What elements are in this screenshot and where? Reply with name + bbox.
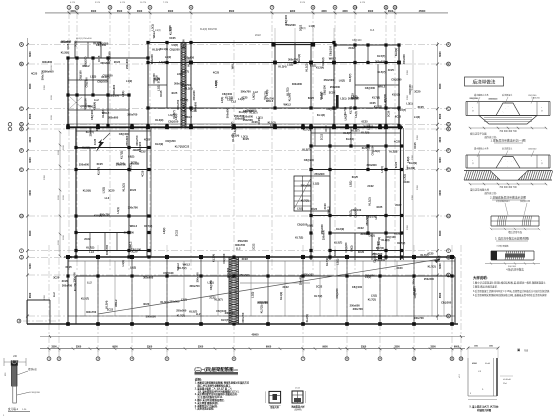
svg-text:4C25: 4C25	[31, 71, 38, 75]
svg-text:6600: 6600	[439, 190, 442, 196]
svg-text:L6(2): L6(2)	[128, 154, 134, 158]
svg-text:KL7(2): KL7(2)	[348, 106, 352, 114]
svg-text:250x600: 250x600	[125, 135, 129, 146]
svg-text:1.梁板后浇带做法示意(一)图: 1.梁板后浇带做法示意(一)图	[491, 139, 526, 143]
svg-text:C8@200: C8@200	[102, 73, 113, 77]
svg-text:6600: 6600	[439, 230, 442, 236]
svg-text:300x700: 300x700	[105, 244, 109, 255]
svg-text:3300: 3300	[394, 346, 400, 349]
svg-text:L6(2): L6(2)	[351, 94, 357, 98]
svg-text:C8@100: C8@100	[108, 51, 112, 62]
svg-text:250x600: 250x600	[88, 126, 92, 137]
svg-text:300x600: 300x600	[146, 314, 157, 318]
svg-text:6600: 6600	[29, 157, 32, 163]
svg-text:6C25: 6C25	[361, 120, 368, 124]
svg-text:KL7(2): KL7(2)	[428, 265, 436, 269]
svg-text:250x500: 250x500	[424, 277, 435, 281]
svg-text:L3(1): L3(1)	[297, 207, 303, 211]
svg-text:F: F	[448, 149, 450, 153]
svg-text:45600: 45600	[419, 10, 426, 13]
svg-text:KL3(4): KL3(4)	[212, 254, 216, 262]
svg-text:3C20: 3C20	[323, 203, 327, 210]
svg-text:250x500: 250x500	[324, 78, 335, 82]
svg-text:L3(1): L3(1)	[181, 298, 187, 302]
svg-text:L3(1): L3(1)	[349, 181, 353, 187]
svg-text:KL8(1) 250x500: KL8(1) 250x500	[76, 38, 92, 40]
svg-text:10: 10	[412, 357, 416, 361]
svg-text:C8@100: C8@100	[328, 45, 332, 56]
svg-text:250x500: 250x500	[124, 231, 135, 235]
svg-text:6600: 6600	[439, 263, 442, 269]
svg-text:KL7(2): KL7(2)	[186, 58, 190, 66]
svg-text:KL7(2): KL7(2)	[368, 297, 376, 301]
svg-text:3300: 3300	[70, 10, 76, 13]
svg-text:内锚固大样图: 内锚固大样图	[477, 408, 492, 412]
svg-text:300x600: 300x600	[225, 108, 229, 119]
svg-text:D: D	[447, 122, 449, 126]
svg-text:KL2(9): KL2(9)	[389, 150, 397, 154]
svg-text:4.170: 4.170	[360, 2, 366, 4]
svg-text:KL2(9): KL2(9)	[336, 227, 344, 231]
svg-text:6600: 6600	[29, 113, 32, 119]
svg-text:C8@100: C8@100	[96, 43, 107, 47]
svg-text:3300: 3300	[361, 346, 367, 349]
svg-text:2C22: 2C22	[348, 46, 355, 50]
svg-text:2C22: 2C22	[174, 229, 178, 236]
svg-text:6600: 6600	[266, 346, 272, 349]
svg-text:6600: 6600	[439, 51, 442, 57]
svg-text:L3(1): L3(1)	[265, 89, 269, 95]
svg-text:KL5(7): KL5(7)	[81, 296, 89, 300]
svg-text:300x700: 300x700	[288, 57, 299, 61]
svg-text:6C25: 6C25	[66, 265, 73, 269]
svg-text:4.170: 4.170	[70, 2, 76, 4]
svg-text:L6(2): L6(2)	[177, 72, 183, 76]
svg-text:≥0.4LaE: ≥0.4LaE	[503, 378, 511, 381]
svg-text:4C25: 4C25	[140, 170, 144, 177]
svg-text:L6(2): L6(2)	[365, 275, 371, 279]
svg-text:KL5(7): KL5(7)	[398, 108, 406, 112]
svg-text:KL7(2): KL7(2)	[144, 224, 152, 228]
svg-text:L3(1): L3(1)	[121, 91, 125, 97]
svg-text:KL7(2): KL7(2)	[374, 105, 382, 109]
svg-text:C8@200: C8@200	[169, 48, 180, 52]
svg-text:6C25: 6C25	[413, 142, 417, 149]
svg-text:6600: 6600	[29, 51, 32, 57]
svg-text:D: D	[20, 122, 22, 126]
svg-text:WKL2: WKL2	[329, 57, 337, 61]
svg-text:9900: 9900	[322, 346, 328, 349]
svg-text:G: G	[20, 168, 22, 172]
svg-text:KL1(2): KL1(2)	[321, 57, 325, 65]
svg-text:L6(2): L6(2)	[344, 114, 348, 120]
svg-text:4C25: 4C25	[144, 137, 151, 141]
svg-text:L3(1): L3(1)	[150, 24, 154, 30]
svg-text:300x700: 300x700	[127, 113, 138, 117]
svg-text:KL5(7): KL5(7)	[182, 104, 186, 112]
svg-text:300x600: 300x600	[225, 311, 236, 315]
svg-text:KL1(2): KL1(2)	[304, 63, 308, 71]
svg-text:2C22: 2C22	[84, 237, 91, 241]
svg-text:WKL2: WKL2	[378, 84, 386, 88]
svg-text:2C22: 2C22	[320, 92, 324, 99]
svg-text:C8@200: C8@200	[138, 141, 142, 152]
svg-text:KL2(9): KL2(9)	[61, 51, 69, 55]
svg-text:KL5(7): KL5(7)	[96, 167, 100, 175]
svg-text:6600: 6600	[439, 113, 442, 119]
svg-text:KL1(2): KL1(2)	[317, 113, 325, 117]
svg-text:KL2(9): KL2(9)	[155, 118, 163, 122]
svg-text:6600: 6600	[29, 190, 32, 196]
svg-text:12: 12	[393, 5, 397, 9]
svg-text:LL2: LL2	[374, 214, 378, 219]
svg-text:KL7(2): KL7(2)	[177, 314, 185, 318]
svg-text:300x600: 300x600	[375, 59, 386, 63]
svg-text:2C22: 2C22	[319, 133, 323, 140]
svg-text:6C25: 6C25	[333, 249, 337, 256]
svg-text:KL2(9) 300x700: KL2(9) 300x700	[200, 28, 218, 31]
svg-text:C8@100: C8@100	[352, 285, 363, 289]
svg-text:6600: 6600	[439, 157, 442, 163]
svg-text:6600: 6600	[439, 83, 442, 89]
svg-text:WKL2: WKL2	[185, 115, 193, 119]
svg-text:4.板后浇带做法: 4.板后浇带做法	[506, 268, 524, 272]
svg-text:KL2(9): KL2(9)	[412, 286, 416, 294]
svg-text:2C22: 2C22	[282, 285, 289, 289]
svg-text:250x500: 250x500	[330, 85, 341, 89]
svg-text:L1(2): L1(2)	[238, 97, 244, 101]
svg-text:梁后浇带加腋大样: 梁后浇带加腋大样	[470, 188, 490, 192]
svg-text:6C25: 6C25	[352, 175, 359, 179]
svg-text:3300: 3300	[198, 346, 204, 349]
svg-text:2C22: 2C22	[311, 207, 318, 211]
svg-text:KL2(9): KL2(9)	[394, 231, 402, 235]
svg-text:L1(2): L1(2)	[126, 79, 132, 83]
svg-text:L3(1): L3(1)	[402, 174, 406, 180]
svg-text:120 120: 120 120	[11, 361, 19, 363]
svg-text:6C25: 6C25	[97, 162, 104, 166]
svg-text:300x600: 300x600	[192, 90, 196, 101]
svg-text:11: 11	[385, 5, 388, 9]
svg-text:KL2(9): KL2(9)	[82, 146, 90, 150]
svg-text:3300: 3300	[412, 84, 414, 90]
svg-text:C8@200: C8@200	[119, 132, 130, 136]
svg-text:3300: 3300	[91, 10, 97, 13]
svg-text:KL3(4): KL3(4)	[278, 65, 286, 69]
svg-text:C8@100: C8@100	[163, 271, 174, 275]
svg-text:3C20: 3C20	[108, 188, 115, 192]
svg-text:250x500: 250x500	[286, 23, 297, 27]
svg-text:250x600: 250x600	[301, 183, 312, 187]
svg-text:2C22: 2C22	[107, 307, 114, 311]
svg-text:G: G	[447, 168, 449, 172]
svg-text:L6(2): L6(2)	[174, 113, 178, 119]
svg-text:L6(2): L6(2)	[349, 245, 353, 251]
svg-text:3300: 3300	[407, 224, 409, 230]
svg-text:L3(1): L3(1)	[367, 124, 371, 130]
svg-text:250x500: 250x500	[238, 239, 249, 243]
svg-text:300x600: 300x600	[42, 60, 53, 64]
svg-text:KL5(7): KL5(7)	[215, 297, 223, 301]
svg-text:KL3(4): KL3(4)	[93, 102, 97, 110]
svg-text:L1(2): L1(2)	[349, 210, 353, 216]
svg-text:L1(2): L1(2)	[309, 24, 315, 28]
svg-text:6C25: 6C25	[169, 36, 176, 40]
svg-text:250x500: 250x500	[372, 252, 383, 256]
svg-text:KL7(2): KL7(2)	[178, 266, 186, 270]
svg-text:L6(2): L6(2)	[130, 265, 136, 269]
svg-text:C8@200: C8@200	[528, 149, 537, 151]
svg-text:3C20: 3C20	[403, 180, 410, 184]
svg-text:700 300 300 700: 700 300 300 700	[499, 131, 517, 133]
svg-text:6C25: 6C25	[308, 96, 315, 100]
svg-text:2C22: 2C22	[252, 243, 256, 250]
svg-text:KL5(7): KL5(7)	[392, 93, 400, 97]
svg-text:250x600: 250x600	[320, 224, 324, 235]
svg-text:≥LaE: ≥LaE	[485, 362, 491, 365]
svg-text:.: .	[501, 159, 502, 163]
svg-text:C8@200: C8@200	[165, 139, 176, 143]
svg-text:250x500: 250x500	[176, 309, 187, 313]
svg-text:C8@200: C8@200	[90, 109, 94, 120]
svg-text:LL2: LL2	[196, 312, 201, 316]
svg-text:6600: 6600	[454, 346, 460, 349]
svg-text:3300: 3300	[412, 194, 414, 200]
svg-text:2C22: 2C22	[242, 257, 249, 261]
svg-text:L3(1): L3(1)	[241, 134, 247, 138]
svg-text:WKL2: WKL2	[130, 224, 138, 228]
svg-text:4C25: 4C25	[394, 139, 401, 143]
svg-text:KL7(2): KL7(2)	[101, 109, 105, 117]
svg-text:300x600: 300x600	[292, 82, 303, 86]
svg-text:(二)~(四)层梁配筋图: (二)~(四)层梁配筋图	[194, 366, 234, 373]
svg-text:6600: 6600	[29, 292, 32, 298]
svg-text:LL2: LL2	[105, 196, 110, 200]
svg-text:.: .	[513, 157, 514, 161]
svg-text:KL2(9): KL2(9)	[155, 142, 163, 146]
svg-text:WKL2: WKL2	[114, 299, 118, 307]
svg-text:KL5(7): KL5(7)	[334, 241, 342, 245]
svg-text:C8@200: C8@200	[354, 207, 358, 218]
svg-text:300x600: 300x600	[112, 84, 116, 95]
svg-text:C8@200: C8@200	[370, 145, 374, 156]
svg-text:2C22: 2C22	[255, 34, 261, 37]
svg-text:≥500: ≥500	[472, 362, 478, 365]
svg-text:3300: 3300	[407, 69, 409, 75]
svg-text:L1(2): L1(2)	[287, 62, 293, 66]
svg-text:6C25: 6C25	[394, 161, 398, 168]
svg-text:300x600: 300x600	[61, 40, 72, 44]
svg-text:L3(1): L3(1)	[371, 293, 377, 297]
svg-text:LL2: LL2	[87, 280, 92, 284]
svg-text:3300: 3300	[342, 10, 348, 13]
svg-text:250x500: 250x500	[365, 215, 369, 226]
svg-text:H: H	[447, 214, 449, 218]
svg-text:C8@200: C8@200	[335, 288, 339, 299]
svg-text:3C20: 3C20	[62, 279, 69, 283]
svg-text:4C25: 4C25	[369, 101, 376, 105]
svg-text:10: 10	[353, 5, 357, 9]
svg-text:L1(2): L1(2)	[90, 74, 96, 78]
svg-text:6600: 6600	[29, 136, 32, 142]
svg-text:3300: 3300	[417, 184, 419, 190]
svg-text:KL5(7): KL5(7)	[230, 122, 234, 130]
svg-text:KL7(2): KL7(2)	[376, 246, 384, 250]
svg-text:45600: 45600	[252, 333, 260, 336]
svg-text:L6(2): L6(2)	[307, 224, 313, 228]
svg-text:KL5(7): KL5(7)	[94, 213, 102, 217]
svg-text:4C25: 4C25	[66, 43, 70, 50]
svg-text:3300: 3300	[51, 346, 57, 349]
svg-text:4C25: 4C25	[388, 68, 395, 72]
svg-text:300x700: 300x700	[412, 274, 416, 285]
svg-text:KL3(4): KL3(4)	[152, 47, 160, 51]
svg-text:300x600: 300x600	[226, 267, 230, 278]
svg-text:KL2(9): KL2(9)	[73, 283, 77, 291]
svg-text:WKL2: WKL2	[183, 262, 191, 266]
svg-text:3300: 3300	[321, 10, 327, 13]
svg-text:11: 11	[451, 357, 454, 361]
svg-text:E: E	[21, 127, 23, 131]
svg-text:250x500: 250x500	[235, 117, 246, 121]
svg-text:C8@200: C8@200	[304, 158, 315, 162]
svg-text:4C25: 4C25	[95, 125, 99, 132]
svg-text:L5(2): L5(2)	[300, 27, 306, 30]
svg-text:300x700: 300x700	[62, 283, 73, 287]
svg-text:女儿墙-1: 女儿墙-1	[8, 407, 19, 411]
svg-text:KL1(2): KL1(2)	[160, 47, 168, 51]
svg-text:KL7(2): KL7(2)	[314, 294, 322, 298]
svg-text:KL5(7): KL5(7)	[362, 146, 370, 150]
svg-text:6C25: 6C25	[190, 109, 197, 113]
svg-text:L6(2): L6(2)	[380, 166, 384, 172]
svg-text:300x700: 300x700	[241, 312, 245, 323]
svg-text:4C25: 4C25	[213, 71, 220, 75]
svg-text:WKL2: WKL2	[230, 61, 234, 69]
svg-text:KL7(2): KL7(2)	[295, 236, 303, 240]
svg-text:L3(1): L3(1)	[227, 97, 233, 101]
svg-text:KL7(2): KL7(2)	[86, 245, 94, 249]
svg-text:C8@200: C8@200	[531, 97, 540, 99]
svg-text:300x700: 300x700	[264, 96, 275, 100]
svg-text:250x600: 250x600	[79, 163, 90, 167]
svg-text:C8@100: C8@100	[97, 79, 108, 83]
svg-text:C8@200: C8@200	[209, 279, 213, 290]
svg-text:L1(2): L1(2)	[270, 123, 276, 127]
svg-text:3.570: 3.570	[95, 2, 101, 4]
svg-text:L6(2): L6(2)	[162, 227, 166, 233]
svg-text:▣: ▣	[517, 348, 520, 352]
svg-text:6600: 6600	[388, 10, 394, 13]
svg-text:300x700: 300x700	[176, 99, 180, 110]
svg-text:6600: 6600	[439, 292, 442, 298]
svg-text:KL2(9): KL2(9)	[361, 131, 369, 135]
svg-text:KL3(4): KL3(4)	[161, 300, 169, 304]
svg-text:C: C	[20, 107, 22, 111]
svg-text:LL2: LL2	[94, 98, 99, 102]
svg-text:C8@200: C8@200	[257, 301, 268, 305]
svg-text:L1(2): L1(2)	[172, 43, 178, 47]
svg-text:300x700: 300x700	[128, 205, 139, 209]
svg-text:F: F	[21, 149, 23, 153]
svg-text:300x600: 300x600	[402, 54, 406, 65]
svg-text:2.基础底板后浇带做法示意图: 2.基础底板后浇带做法示意图	[490, 196, 526, 200]
svg-text:L3(1): L3(1)	[406, 102, 412, 106]
svg-text:KL2(9): KL2(9)	[394, 48, 398, 56]
svg-text:C8@200: C8@200	[470, 98, 479, 100]
svg-text:6C25: 6C25	[257, 118, 261, 125]
svg-text:A: A	[20, 43, 22, 47]
svg-text:KL3(4): KL3(4)	[346, 137, 354, 141]
svg-text:KL7(2): KL7(2)	[325, 258, 329, 266]
svg-text:C8@200: C8@200	[365, 86, 376, 90]
svg-text:250x600: 250x600	[314, 172, 325, 176]
svg-text:KL3(4): KL3(4)	[116, 161, 124, 165]
svg-text:大样说明:: 大样说明:	[473, 275, 488, 280]
svg-text:L3(1): L3(1)	[340, 96, 346, 100]
svg-text:KL7(2): KL7(2)	[231, 133, 235, 141]
svg-text:KL5(7): KL5(7)	[302, 148, 310, 152]
svg-text:KL7(2): KL7(2)	[175, 145, 183, 149]
svg-text:1:100: 1:100	[231, 368, 238, 372]
svg-text:C8@200: C8@200	[326, 107, 337, 111]
svg-text:KL5(7): KL5(7)	[221, 318, 229, 322]
svg-text:3C20: 3C20	[143, 302, 150, 306]
svg-text:KL2(9): KL2(9)	[409, 161, 417, 165]
svg-text:4C25: 4C25	[97, 55, 101, 62]
svg-text:3300: 3300	[417, 134, 419, 140]
svg-text:KL7(2): KL7(2)	[286, 87, 290, 95]
svg-text:KL6: KL6	[370, 29, 375, 32]
svg-text:3300: 3300	[44, 84, 46, 90]
svg-text:LL2: LL2	[89, 250, 94, 254]
svg-text:6C25: 6C25	[418, 105, 425, 109]
svg-text:L1(2): L1(2)	[313, 181, 319, 185]
svg-text:4C25: 4C25	[171, 91, 178, 95]
svg-text:C8@100: C8@100	[352, 39, 362, 42]
svg-text:KL1(2): KL1(2)	[279, 292, 283, 300]
svg-text:KL2(9): KL2(9)	[381, 238, 389, 242]
svg-text:3C20: 3C20	[168, 25, 172, 32]
svg-text:L1(2): L1(2)	[157, 85, 161, 91]
svg-text:9900: 9900	[290, 10, 296, 13]
svg-text:.: .	[507, 164, 508, 168]
svg-text:6600: 6600	[29, 230, 32, 236]
svg-text:KL5(7): KL5(7)	[348, 74, 352, 82]
svg-text:L6(2): L6(2)	[165, 55, 171, 59]
svg-text:C8@200: C8@200	[344, 242, 348, 253]
svg-text:.: .	[507, 159, 508, 163]
svg-text:4C25: 4C25	[93, 138, 97, 145]
svg-text:3300: 3300	[430, 346, 436, 349]
svg-text:4C25: 4C25	[376, 205, 383, 209]
svg-text:3C20: 3C20	[414, 89, 421, 93]
svg-text:7.170: 7.170	[163, 2, 169, 4]
svg-text:3300: 3300	[76, 346, 82, 349]
svg-text:KL7(2): KL7(2)	[303, 127, 311, 131]
svg-text:250x600: 250x600	[125, 58, 129, 69]
svg-text:C8@200: C8@200	[391, 78, 402, 82]
svg-text:3300: 3300	[44, 174, 46, 180]
svg-text:KL5(7): KL5(7)	[180, 98, 188, 102]
svg-text:.: .	[515, 102, 516, 106]
svg-text:3300: 3300	[368, 10, 374, 13]
svg-text:2C22: 2C22	[183, 145, 190, 149]
svg-text:2C22: 2C22	[114, 60, 121, 64]
svg-text:KL7(2): KL7(2)	[397, 241, 405, 245]
svg-text:300x700: 300x700	[86, 310, 97, 314]
svg-text:6600: 6600	[117, 10, 123, 13]
